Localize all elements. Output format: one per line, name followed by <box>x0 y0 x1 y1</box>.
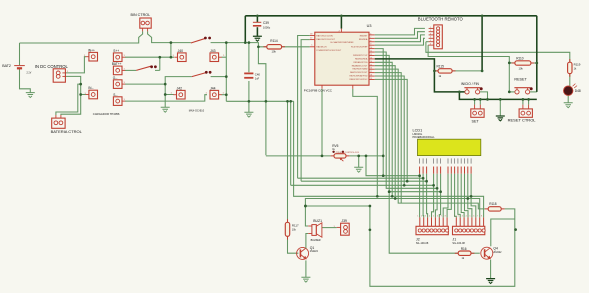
svg-text:3: 3 <box>430 33 431 35</box>
svg-text:R114: R114 <box>270 39 278 43</box>
svg-text:RC6/TX/CK/VREF: RC6/TX/CK/VREF <box>351 47 368 49</box>
svg-text:R119: R119 <box>574 63 581 67</box>
svg-text:RV5: RV5 <box>332 144 338 148</box>
svg-text:S++: S++ <box>113 49 119 53</box>
svg-text:R118: R118 <box>489 202 497 206</box>
svg-text:SIL-100-08: SIL-100-08 <box>416 242 429 245</box>
svg-text:J40: J40 <box>178 49 184 53</box>
svg-text:BAT++: BAT++ <box>112 62 122 66</box>
svg-text:1uF: 1uF <box>255 77 260 80</box>
svg-text:2N2222: 2N2222 <box>493 252 502 254</box>
svg-text:IN DC CONTROL: IN DC CONTROL <box>35 64 69 69</box>
svg-text:2: 2 <box>430 30 431 32</box>
svg-text:PWM1/RTYCLP: PWM1/RTYCLP <box>353 55 368 57</box>
svg-text:J39: J39 <box>341 219 347 223</box>
svg-text:O--: O-- <box>113 76 118 80</box>
svg-text:IN--: IN-- <box>88 86 93 90</box>
svg-text:U3: U3 <box>367 24 372 28</box>
svg-text:BUZZER: BUZZER <box>311 239 321 242</box>
svg-text:2N2222: 2N2222 <box>310 251 319 253</box>
svg-text:4: 4 <box>430 37 431 39</box>
svg-text:SET: SET <box>472 120 480 124</box>
svg-text:MAX-OC-B10: MAX-OC-B10 <box>189 110 205 113</box>
svg-text:R16: R16 <box>461 247 467 251</box>
svg-text:INICIO / FIN: INICIO / FIN <box>461 82 480 86</box>
svg-text:R117: R117 <box>292 224 299 228</box>
svg-text:BUZ1: BUZ1 <box>313 219 322 223</box>
svg-text:BAT2: BAT2 <box>2 64 11 68</box>
svg-text:PRUEBADCKRGLL: PRUEBADCKRGLL <box>413 136 436 139</box>
svg-text:BIN CTROL: BIN CTROL <box>131 13 151 17</box>
svg-text:J2: J2 <box>416 238 420 242</box>
svg-text:J1: J1 <box>452 238 456 242</box>
svg-text:6: 6 <box>430 44 431 46</box>
svg-text:C39: C39 <box>263 21 269 25</box>
svg-text:Q4: Q4 <box>493 247 498 251</box>
svg-text:LCD1: LCD1 <box>413 128 423 132</box>
svg-text:RB0/INT: RB0/INT <box>360 36 368 38</box>
svg-text:Q1: Q1 <box>310 246 315 250</box>
svg-text:R115: R115 <box>437 65 445 69</box>
svg-text:SIL-100-08: SIL-100-08 <box>452 242 465 245</box>
svg-text:POWERPIN/TOCKI/C2OUT: POWERPIN/TOCKI/C2OUT <box>316 50 342 52</box>
svg-text:R110: R110 <box>516 56 524 60</box>
svg-text:BATERIA CTROL: BATERIA CTROL <box>51 129 83 134</box>
svg-text:RB6/ICSPCLK/PGC: RB6/ICSPCLK/PGC <box>349 79 367 81</box>
svg-text:5: 5 <box>430 40 431 42</box>
svg-text:C40: C40 <box>255 73 261 77</box>
svg-text:CARGADOR TP4056: CARGADOR TP4056 <box>93 112 120 116</box>
svg-text:2.1V: 2.1V <box>27 73 32 75</box>
svg-text:S--: S-- <box>113 93 117 97</box>
svg-text:PIC16F88 CON VCC: PIC16F88 CON VCC <box>304 89 333 93</box>
svg-text:J44: J44 <box>210 86 216 90</box>
svg-text:BLUETOOTH REMOTO: BLUETOOTH REMOTO <box>418 17 464 22</box>
svg-text:RESET: RESET <box>514 78 527 82</box>
svg-text:D48: D48 <box>575 89 581 93</box>
svg-text:RESET CTROL: RESET CTROL <box>508 117 537 122</box>
svg-text:J42: J42 <box>177 86 183 90</box>
svg-text:J43: J43 <box>210 49 216 53</box>
svg-text:1: 1 <box>430 27 431 29</box>
svg-text:IN++: IN++ <box>88 48 95 52</box>
